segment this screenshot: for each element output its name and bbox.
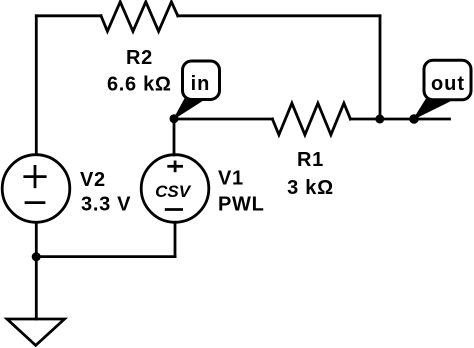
svg-text:CSV: CSV	[155, 182, 192, 201]
wire bottom horizontal	[36, 255, 175, 258]
node out flag pointer	[414, 98, 449, 119]
wire in-node down to V1	[173, 119, 176, 155]
svg-text:R2: R2	[126, 47, 153, 69]
junction dot at out node	[409, 114, 419, 124]
resistor R2	[101, 2, 178, 32]
svg-text:out: out	[431, 73, 465, 95]
wire right vertical	[379, 16, 382, 119]
wire V1 bottom	[174, 222, 177, 256]
wire V2 bottom to ground	[35, 223, 38, 320]
wire mid horizontal: R1 to right end	[350, 118, 449, 121]
node in flag pointer	[174, 99, 202, 119]
svg-text:V1: V1	[218, 167, 244, 189]
svg-text:6.6 kΩ: 6.6 kΩ	[107, 73, 172, 95]
svg-text:R1: R1	[297, 149, 324, 171]
wire top horizontal right segment	[178, 14, 380, 17]
svg-text:in: in	[191, 73, 211, 95]
wire mid horizontal: in-dot to R1	[174, 118, 272, 121]
node out box	[424, 60, 471, 100]
wire top horizontal left segment	[36, 14, 101, 17]
junction dot at R1/right-vertical	[375, 115, 384, 124]
voltage source V1	[141, 155, 209, 223]
svg-text:3 kΩ: 3 kΩ	[287, 177, 334, 199]
node in box	[183, 61, 220, 100]
wire top-left vertical	[35, 16, 38, 154]
svg-text:PWL: PWL	[218, 194, 265, 216]
junction dot at in node	[170, 114, 179, 123]
svg-text:3.3 V: 3.3 V	[81, 194, 131, 216]
resistor R1	[272, 103, 350, 135]
svg-text:V2: V2	[80, 169, 106, 191]
ground	[7, 319, 65, 345]
voltage source V2	[2, 155, 70, 223]
junction dot at bottom node	[32, 252, 41, 261]
